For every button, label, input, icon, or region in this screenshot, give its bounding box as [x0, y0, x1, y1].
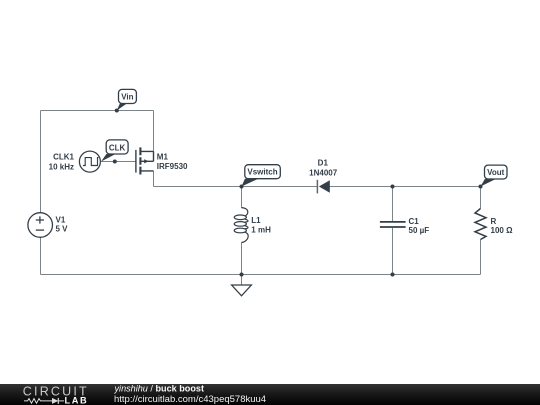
M1 arrow: [144, 159, 148, 163]
svg-text:LAB: LAB: [65, 395, 89, 405]
wire L1 bottom stub: [241, 243, 243, 275]
svg-text:L1: L1: [251, 216, 261, 225]
voltage source V1: [28, 213, 53, 238]
node CLK dot: [113, 160, 117, 164]
wire M1 source to Vin rail: [153, 111, 155, 152]
wire R top stub: [480, 187, 482, 209]
wire bottom rail: [41, 274, 481, 276]
label C1 50 uF: [409, 217, 430, 235]
wire left vertical below V1: [40, 238, 42, 275]
svg-text:1 mH: 1 mH: [251, 226, 271, 235]
label M1 IRF9530: [157, 152, 188, 171]
inductor L1: [234, 208, 248, 243]
svg-text:http://circuitlab.com/c43peq57: http://circuitlab.com/c43peq578kuu4: [114, 394, 266, 405]
svg-text:5 V: 5 V: [56, 225, 69, 234]
transistor M1 (PMOS): [136, 147, 154, 174]
svg-text:50 µF: 50 µF: [409, 226, 430, 235]
node C1 top dot: [391, 185, 395, 189]
svg-text:yinshihu / buck boost: yinshihu / buck boost: [114, 384, 204, 394]
svg-text:100 Ω: 100 Ω: [491, 226, 514, 235]
node C1 bottom dot: [391, 273, 395, 277]
wire Vout rail right of diode: [330, 186, 481, 188]
label L1 1 mH: [251, 216, 271, 235]
wire clock output to gate: [101, 161, 136, 163]
svg-text:C1: C1: [409, 217, 420, 226]
svg-text:CLK1: CLK1: [53, 153, 74, 162]
node L1 bottom dot: [240, 273, 244, 277]
svg-text:M1: M1: [157, 152, 169, 161]
svg-text:1N4007: 1N4007: [309, 169, 338, 178]
resistor R: [475, 209, 486, 240]
wire M1 drain down to Vswitch rail: [153, 171, 155, 187]
node Vout dot: [479, 185, 483, 189]
svg-text:Vin: Vin: [121, 92, 133, 101]
label D1 1N4007: [309, 159, 338, 178]
flag Vin: [117, 89, 137, 110]
label V1 5 V: [56, 215, 69, 233]
ground: [232, 285, 252, 296]
wire ground stub: [241, 275, 243, 286]
svg-text:CLK: CLK: [109, 143, 126, 152]
capacitor C1: [380, 222, 406, 227]
label CLK1 10 kHz: [49, 153, 75, 172]
wire C1 top stub: [392, 187, 394, 222]
svg-text:Vswitch: Vswitch: [247, 168, 277, 177]
label R 100 ohm: [491, 217, 514, 235]
wire top: Vin rail: [41, 110, 154, 112]
svg-text:IRF9530: IRF9530: [157, 162, 188, 171]
svg-text:10 kHz: 10 kHz: [49, 162, 74, 171]
svg-text:R: R: [491, 217, 497, 226]
logo diode: [52, 398, 58, 404]
flag CLK: [101, 140, 128, 162]
svg-text:Vout: Vout: [487, 168, 505, 177]
wire L1 top stub: [241, 187, 243, 208]
svg-text:V1: V1: [56, 215, 66, 224]
diode D1: [316, 180, 318, 194]
flag Vout: [481, 165, 508, 186]
wire Vswitch rail left of diode: [154, 186, 318, 188]
svg-text:D1: D1: [318, 159, 329, 168]
node Vin dot: [115, 109, 119, 113]
clock source CLK1: [79, 151, 100, 172]
flag Vswitch: [242, 165, 281, 187]
wire C1 bottom stub: [392, 228, 394, 275]
wire R bottom stub: [480, 240, 482, 275]
node Vswitch dot: [240, 185, 244, 189]
logo resistor squiggle: [24, 399, 52, 404]
wire left vertical above V1: [40, 111, 42, 213]
